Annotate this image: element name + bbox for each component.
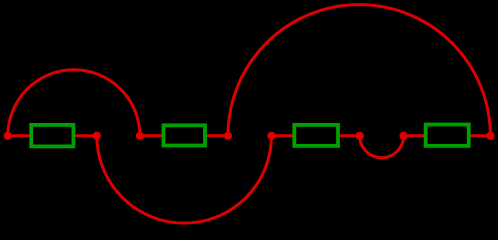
node H [486, 132, 494, 140]
arc wire node B to node E (lower semicircle) [97, 136, 272, 223]
node E [267, 132, 275, 140]
arc wire node A to node C (upper left semicircle) [8, 70, 140, 136]
arc wire node D to node H (large upper semicircle) [228, 5, 491, 136]
node A [4, 132, 12, 140]
node G [399, 132, 407, 140]
wire node G to resistor R4 [404, 134, 426, 137]
wire resistor R1 to node B [73, 134, 96, 137]
node B [93, 132, 101, 140]
resistor R1 [31, 125, 73, 146]
node C [136, 132, 144, 140]
node F [356, 132, 364, 140]
wire node A to resistor R1 [8, 134, 31, 137]
node D [224, 132, 232, 140]
resistor R3 [294, 125, 338, 146]
wire node C to resistor R2 [140, 134, 164, 137]
wire resistor R3 to node F [338, 134, 360, 137]
wire resistor R4 to node H [469, 134, 491, 137]
wire resistor R2 to node D [205, 134, 228, 137]
wire node E to resistor R3 [272, 134, 295, 137]
resistor R4 [426, 125, 469, 146]
arc wire node F to node G (small lower semicircle) [360, 136, 404, 158]
resistor R2 [164, 125, 206, 145]
